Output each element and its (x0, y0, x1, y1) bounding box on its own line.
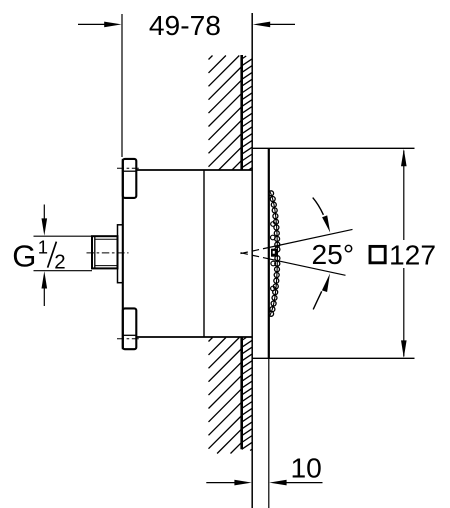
G12 top extension line (34, 235, 93, 237)
bottom tab centerline (117, 338, 141, 340)
dim 49-78 right arrow (268, 23, 295, 25)
washer behind plate (118, 225, 123, 283)
dim 127 line lower (403, 268, 405, 357)
threaded nipple body (92, 236, 118, 268)
body bottom edge (136, 336, 252, 338)
top tab centerline (117, 167, 141, 169)
G12 bottom arrow (43, 286, 45, 306)
spray dome profile (269, 191, 277, 317)
extension line below faceplate for 10 dim (268, 358, 270, 508)
body top edge (136, 169, 252, 171)
angle arc arrow upper (313, 198, 324, 215)
spray angle lower line dashed part (241, 253, 269, 259)
wall hatch upper main band (209, 56, 242, 171)
svg-text:10: 10 (291, 452, 322, 484)
svg-text:G: G (12, 238, 36, 273)
angle arc arrow lower (313, 291, 322, 309)
faceplate front edge (268, 148, 270, 358)
thread root line top (95, 238, 118, 240)
wall finish hatch upper fine band (242, 56, 253, 170)
nozzle bead circles (269, 191, 274, 196)
G12 bottom extension line (34, 270, 93, 272)
wall face thick line upper (240, 55, 243, 170)
top mounting tab (123, 159, 137, 198)
dim 10 left arrow (206, 482, 237, 484)
spray angle upper line (269, 229, 353, 247)
wall hatch lower main band (209, 338, 242, 454)
svg-text:49-78: 49-78 (149, 9, 221, 41)
dim 49-78 left extension line (121, 14, 123, 157)
svg-text:2: 2 (54, 250, 65, 273)
body inner vertical line (203, 170, 205, 337)
faceplate top edge + extension to 127 dim (252, 147, 414, 149)
nipple chamfer line (94, 236, 96, 268)
thread root line bottom (95, 265, 118, 267)
mounting plate face (122, 159, 124, 349)
spray angle upper line dashed part (241, 248, 269, 254)
svg-text:127: 127 (389, 238, 436, 270)
spray angle lower line (269, 259, 346, 276)
square symbol of 127 (370, 246, 385, 262)
svg-text:1: 1 (38, 236, 48, 257)
wall finish hatch lower fine band (242, 338, 253, 451)
dim 10 right arrow (284, 482, 323, 484)
nipple centerline (87, 252, 129, 254)
faceplate bottom edge + extension to 127 dim (252, 357, 414, 359)
finished wall surface line (251, 13, 253, 508)
dim 127 line upper (403, 151, 405, 241)
G12 top arrow (43, 205, 45, 222)
svg-text:25°: 25° (312, 238, 355, 270)
dim 49-78 left arrow (78, 23, 106, 25)
center nozzle square (271, 249, 278, 257)
wall face thick line lower (240, 337, 243, 449)
bottom mounting tab (123, 308, 137, 349)
